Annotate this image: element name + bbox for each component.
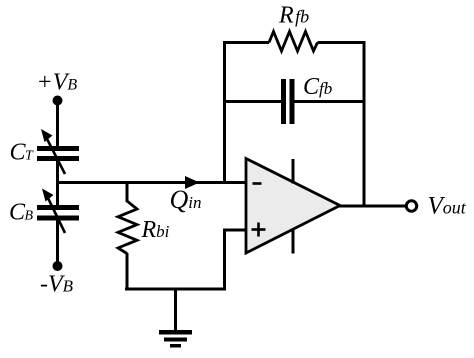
- svg-text:Rbi: Rbi: [141, 217, 170, 243]
- wire (plus input): [225, 229, 247, 291]
- wire (output): [339, 205, 406, 208]
- wire: [56, 220, 59, 267]
- svg-text:CT: CT: [10, 140, 35, 166]
- wire (feedback right branch): [363, 41, 366, 206]
- wire Qin with arrow: [56, 176, 246, 214]
- resistor Rfb: [223, 3, 366, 52]
- svg-text:-VB: -VB: [40, 272, 74, 298]
- -VB supply terminal: [40, 261, 74, 298]
- wire (feedback left branch): [223, 41, 226, 183]
- svg-text:CB: CB: [9, 200, 34, 226]
- wire: [56, 160, 59, 206]
- resistor Rbi: [118, 183, 170, 291]
- svg-text:+VB: +VB: [37, 70, 78, 96]
- svg-text:Qin: Qin: [170, 185, 202, 214]
- svg-text:Cfb: Cfb: [303, 74, 332, 100]
- wire: [56, 101, 59, 149]
- wire (bottom rail): [125, 288, 226, 291]
- svg-text:Vout: Vout: [428, 193, 467, 220]
- capacitor CB: [9, 189, 79, 234]
- ground: [159, 289, 192, 348]
- op-amp U1: [246, 159, 340, 254]
- svg-text:Rfb: Rfb: [278, 3, 309, 29]
- output terminal Vout: [406, 193, 466, 220]
- capacitor Cfb: [225, 74, 365, 124]
- capacitor CT: [10, 129, 80, 174]
- +VB supply terminal: [37, 70, 78, 106]
